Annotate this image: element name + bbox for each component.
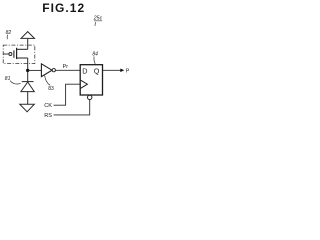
label 25c	[93, 16, 103, 26]
wire drain down to diode	[27, 58, 29, 82]
svg-text:D: D	[82, 67, 87, 76]
wire RS to reset bubble	[54, 100, 90, 115]
wire VDD to transistor source	[27, 39, 29, 49]
svg-text:84: 84	[92, 52, 98, 58]
transistor Q1 (PMOS)	[3, 48, 28, 59]
svg-text:83: 83	[48, 86, 54, 92]
label 81	[5, 76, 21, 84]
svg-text:82: 82	[6, 30, 12, 36]
ground	[20, 104, 35, 112]
wire Q output with arrow	[103, 69, 122, 71]
power supply triangle VDD	[21, 32, 35, 39]
svg-text:81: 81	[5, 76, 11, 82]
node junction	[26, 69, 29, 72]
svg-text:Pr: Pr	[63, 64, 69, 70]
flip-flop reset bubble	[88, 95, 92, 99]
flip-flop clock triangle	[80, 80, 87, 89]
label 83	[45, 75, 54, 92]
svg-text:CK: CK	[44, 103, 52, 109]
wire junction to inverter	[28, 69, 42, 71]
diode D1 (81) cathode bar	[22, 81, 34, 83]
inverter 83	[41, 64, 55, 77]
diode D1 triangle	[21, 82, 34, 92]
dashed box 82	[3, 45, 35, 64]
wire Pr (inverter output to D input)	[55, 69, 80, 71]
wire CK to clock input	[54, 84, 81, 105]
svg-text:Q: Q	[94, 67, 100, 76]
svg-text:RS: RS	[44, 113, 52, 119]
label 82	[6, 30, 12, 39]
label 84	[92, 52, 98, 64]
flip-flop 84 box	[80, 65, 102, 95]
svg-text:25c: 25c	[93, 16, 103, 22]
svg-text:P: P	[126, 69, 130, 75]
svg-text:FIG.12: FIG.12	[42, 1, 85, 15]
wire diode to ground	[27, 92, 29, 105]
